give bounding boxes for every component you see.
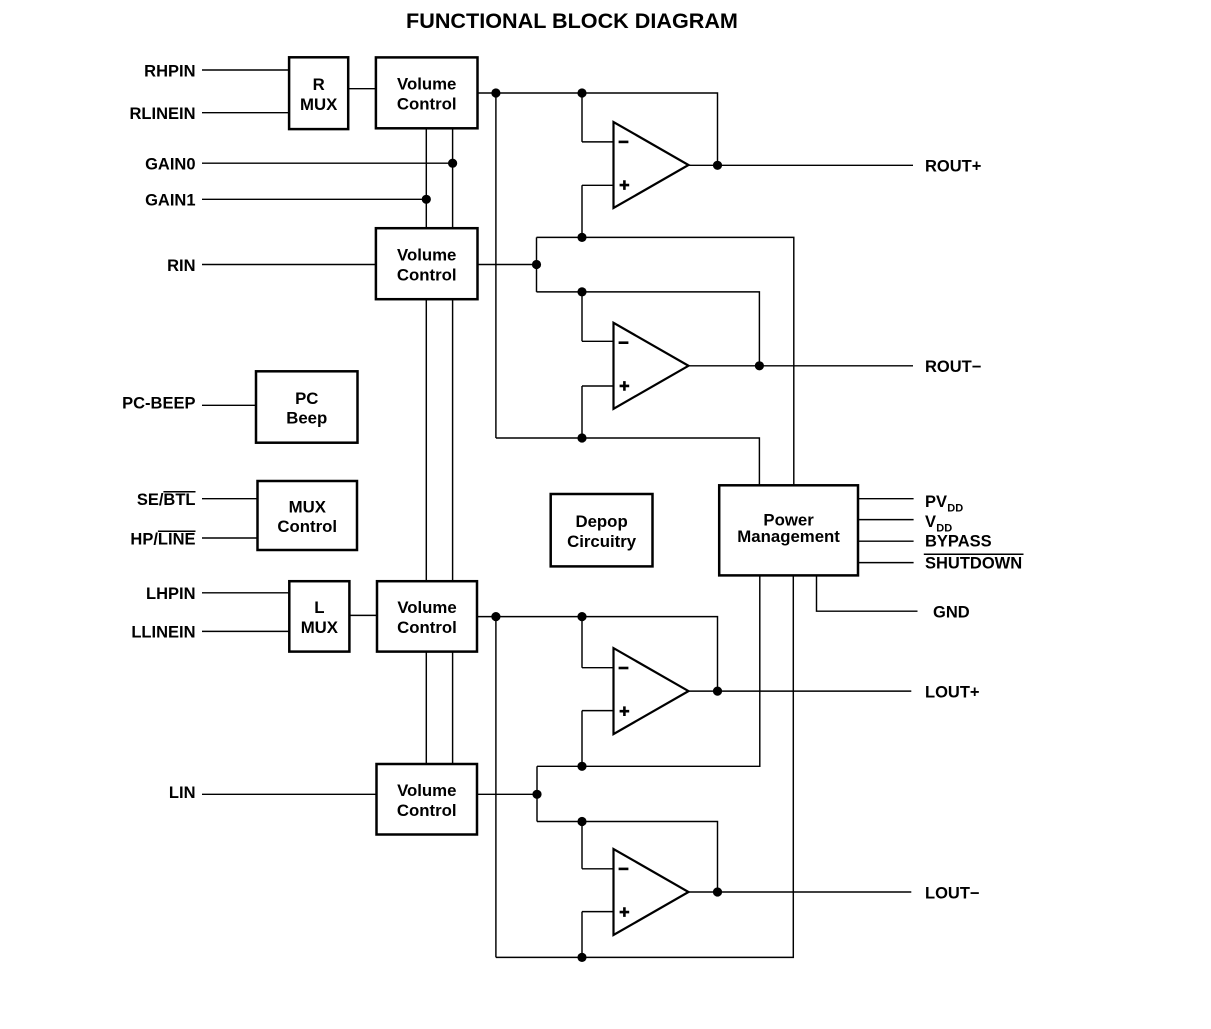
svg-text:PC: PC: [295, 389, 318, 408]
svg-text:Volume: Volume: [397, 75, 456, 94]
svg-text:RLINEIN: RLINEIN: [130, 105, 196, 123]
svg-text:GAIN1: GAIN1: [145, 192, 195, 210]
svg-text:Beep: Beep: [286, 409, 327, 428]
svg-text:SE/BTL: SE/BTL: [137, 491, 196, 509]
svg-text:Circuitry: Circuitry: [567, 532, 637, 551]
svg-text:BYPASS: BYPASS: [925, 533, 992, 551]
svg-text:Control: Control: [277, 517, 337, 536]
svg-text:GND: GND: [933, 604, 970, 622]
svg-text:DD: DD: [947, 502, 963, 514]
svg-text:Volume: Volume: [397, 246, 456, 265]
svg-text:V: V: [925, 513, 936, 531]
svg-text:Management: Management: [737, 527, 840, 546]
svg-text:ROUT−: ROUT−: [925, 358, 981, 376]
svg-text:LLINEIN: LLINEIN: [131, 624, 195, 642]
svg-text:Control: Control: [397, 94, 457, 113]
svg-text:ROUT+: ROUT+: [925, 158, 981, 176]
svg-text:Control: Control: [397, 265, 457, 284]
svg-text:RIN: RIN: [167, 257, 195, 275]
svg-text:FUNCTIONAL BLOCK DIAGRAM: FUNCTIONAL BLOCK DIAGRAM: [406, 8, 738, 33]
svg-text:LIN: LIN: [169, 784, 196, 802]
svg-text:LHPIN: LHPIN: [146, 585, 196, 603]
svg-text:DD: DD: [936, 522, 952, 534]
svg-text:PC-BEEP: PC-BEEP: [122, 394, 195, 412]
svg-text:Volume: Volume: [397, 781, 456, 800]
svg-text:Depop: Depop: [575, 512, 627, 531]
svg-text:Control: Control: [397, 801, 457, 820]
svg-text:RHPIN: RHPIN: [144, 62, 195, 80]
svg-text:MUX: MUX: [289, 497, 327, 516]
svg-text:Control: Control: [397, 618, 457, 637]
svg-text:MUX: MUX: [301, 618, 339, 637]
svg-text:L: L: [314, 598, 324, 617]
svg-text:SHUTDOWN: SHUTDOWN: [925, 554, 1022, 572]
svg-text:MUX: MUX: [300, 95, 338, 114]
svg-text:LOUT−: LOUT−: [925, 885, 980, 903]
svg-text:GAIN0: GAIN0: [145, 156, 195, 174]
svg-text:LOUT+: LOUT+: [925, 683, 980, 701]
svg-text:HP/LINE: HP/LINE: [130, 530, 195, 548]
svg-text:Volume: Volume: [397, 598, 456, 617]
svg-text:R: R: [313, 75, 325, 94]
svg-text:PV: PV: [925, 493, 947, 511]
